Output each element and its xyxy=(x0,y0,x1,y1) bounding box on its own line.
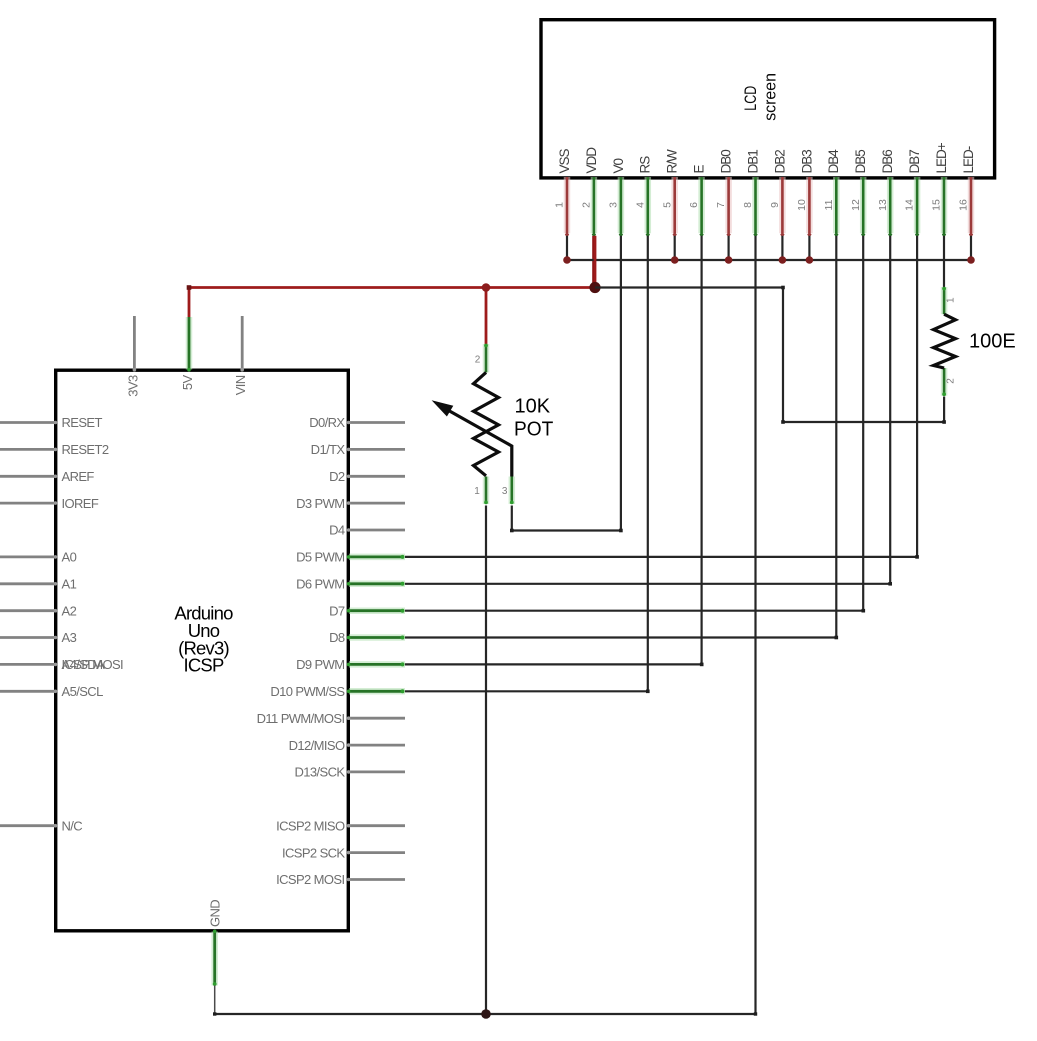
svg-text:V0: V0 xyxy=(611,158,626,173)
5V net: red wire from Arduino 5V to VDD xyxy=(189,286,595,289)
Arduino left pin A5/SCL xyxy=(0,684,103,699)
svg-text:D1/TX: D1/TX xyxy=(311,442,346,457)
svg-text:R/W: R/W xyxy=(665,149,680,174)
Arduino left pin RESET xyxy=(0,415,103,430)
LCD pin 12 DB5 (stub + pin label + number) xyxy=(850,150,868,238)
svg-text:2: 2 xyxy=(475,354,481,365)
Arduino top pin 5V xyxy=(180,317,195,390)
svg-text:6: 6 xyxy=(688,202,700,208)
svg-text:DB0: DB0 xyxy=(719,150,734,174)
LCD screen module (16-pin HD44780) outline xyxy=(541,20,995,178)
wire: LCD pin 1 VSS down to ground bus xyxy=(566,236,568,260)
LCD pin 8 DB1 (stub + pin label + number) xyxy=(742,150,760,238)
svg-text:VSS: VSS xyxy=(557,148,572,173)
svg-text:D0/RX: D0/RX xyxy=(309,415,345,430)
ground bus under LCD (pins 1,5,7,9,10,16) xyxy=(567,259,971,261)
wire: Arduino D6 to LCD DB6 xyxy=(405,583,890,585)
svg-text:A5/SCL: A5/SCL xyxy=(62,684,104,699)
bendpoint at (783,422) xyxy=(781,420,785,424)
wire: LCD pin 11 DB4 vertical down xyxy=(835,236,837,638)
svg-text:3V3: 3V3 xyxy=(125,375,140,397)
Arduino right pin D0/RX xyxy=(309,415,405,430)
wire: LCD pin 7 DB0 down to ground bus xyxy=(727,236,729,260)
svg-text:8: 8 xyxy=(742,202,754,208)
LCD pin 11 DB4 (stub + pin label + number) xyxy=(823,149,841,238)
Arduino right pin ICSP2 MOSI xyxy=(276,872,405,887)
svg-text:5V: 5V xyxy=(180,374,195,390)
bendpoint: bottom bus right end (DB1) xyxy=(754,1012,757,1015)
Arduino left pin A3 xyxy=(0,630,77,645)
Arduino left pin RESET2 xyxy=(0,442,109,457)
svg-text:POT: POT xyxy=(514,419,553,441)
wire: LCD pin 5 R/W down to ground bus xyxy=(674,236,676,260)
wire: potentiometer pin 1 down to bottom ground bus xyxy=(485,506,487,1015)
svg-text:2: 2 xyxy=(945,378,956,384)
svg-text:DB7: DB7 xyxy=(907,150,922,174)
svg-text:D10 PWM/SS: D10 PWM/SS xyxy=(270,684,345,699)
Arduino right pin D4 xyxy=(329,523,405,538)
svg-text:5: 5 xyxy=(661,202,673,208)
bendpoint at (944,422) xyxy=(942,420,946,424)
bendpoint at (890.2,583.8) xyxy=(888,582,892,586)
Arduino right pin D9 PWM xyxy=(296,657,405,672)
wire: Arduino D10 to LCD RS xyxy=(405,690,648,692)
bendpoint at (863.3,610.7) xyxy=(862,609,866,613)
svg-text:4: 4 xyxy=(634,202,646,208)
svg-text:VDD: VDD xyxy=(584,147,599,174)
svg-text:DB6: DB6 xyxy=(880,150,895,174)
Arduino right pin D1/TX xyxy=(311,442,405,457)
wire: LCD pin 12 DB5 vertical down xyxy=(862,236,864,611)
bendpoint: 5V corner above Arduino xyxy=(187,285,192,290)
svg-text:RESET2: RESET2 xyxy=(62,442,109,457)
Arduino right pin D2 xyxy=(329,469,405,484)
wire: LCD pin 4 RS vertical down xyxy=(647,236,649,692)
svg-text:D9 PWM: D9 PWM xyxy=(296,657,344,672)
bendpoint at (917.1,556.9) xyxy=(915,555,919,559)
svg-text:D7: D7 xyxy=(329,603,345,618)
Arduino left pin A4/SDA (label overlapped by ICSP MOSI) xyxy=(0,657,123,672)
svg-text:RESET: RESET xyxy=(62,415,103,430)
svg-text:D8: D8 xyxy=(329,630,345,645)
wire: LCD pin 6 E vertical down xyxy=(700,236,702,665)
svg-text:DB1: DB1 xyxy=(745,150,760,174)
svg-text:D13/SCK: D13/SCK xyxy=(295,765,346,780)
R2 value label 10K POT xyxy=(514,395,553,440)
junction: LED- on ground bus xyxy=(967,256,975,264)
Arduino right pin D13/SCK xyxy=(295,765,406,780)
wire: Arduino D5 to LCD DB7 xyxy=(405,556,917,558)
svg-text:ICSP2 SCK: ICSP2 SCK xyxy=(282,845,345,860)
svg-text:14: 14 xyxy=(904,199,916,211)
LCD pin 6 E (stub + pin label + number) xyxy=(688,165,706,238)
svg-text:2: 2 xyxy=(581,202,593,208)
Arduino top pin VIN xyxy=(233,316,248,395)
svg-text:15: 15 xyxy=(931,199,943,211)
LCD pin 10 DB3 (stub + pin label + number) xyxy=(796,150,814,238)
svg-text:DB2: DB2 xyxy=(772,150,787,174)
svg-text:screen: screen xyxy=(760,73,779,121)
svg-text:A2: A2 xyxy=(62,603,77,618)
svg-text:1: 1 xyxy=(945,297,956,303)
bendpoint at (836.3,637.5) xyxy=(835,636,839,640)
svg-text:3: 3 xyxy=(608,202,620,208)
resistor R1 100E (series with LCD backlight LED+) xyxy=(934,287,957,396)
junction: R/W on ground bus xyxy=(671,256,679,264)
wire: LCD pin 10 DB3 down to ground bus xyxy=(808,236,810,260)
svg-text:LED+: LED+ xyxy=(934,142,949,173)
wire: LCD pin 3 V0 vertical down xyxy=(620,236,622,531)
Arduino module label 'Arduino Uno (Rev3)' + overlapping 'ICSP' xyxy=(174,603,233,676)
svg-text:A0: A0 xyxy=(62,550,77,565)
svg-text:1: 1 xyxy=(474,486,480,497)
Arduino right pin D7 xyxy=(329,603,405,618)
Arduino right pin D8 xyxy=(329,630,405,645)
bendpoint: bottom bus left end xyxy=(213,1012,216,1015)
LCD pin 4 RS (stub + pin label + number) xyxy=(634,156,652,238)
svg-text:D3 PWM: D3 PWM xyxy=(296,496,344,511)
svg-text:D12/MISO: D12/MISO xyxy=(289,738,345,753)
svg-text:LCD: LCD xyxy=(741,86,760,111)
junction: VSS on ground bus xyxy=(563,256,571,264)
svg-text:E: E xyxy=(692,165,707,174)
svg-text:IOREF: IOREF xyxy=(62,496,99,511)
svg-text:12: 12 xyxy=(850,199,862,211)
svg-text:9: 9 xyxy=(769,202,781,208)
Arduino right pin D6 PWM xyxy=(296,577,405,592)
svg-text:DB4: DB4 xyxy=(826,149,841,174)
svg-text:D4: D4 xyxy=(329,523,345,538)
svg-text:A1: A1 xyxy=(62,577,77,592)
svg-text:13: 13 xyxy=(877,199,889,211)
Arduino left pin A1 xyxy=(0,577,77,592)
svg-text:D6 PWM: D6 PWM xyxy=(296,577,344,592)
Arduino right pin D10 PWM/SS xyxy=(270,684,405,699)
svg-text:GND: GND xyxy=(208,900,223,927)
junction: DB2 on ground bus xyxy=(779,256,787,264)
Arduino left pin N/C xyxy=(0,818,82,833)
wire: Arduino D7 to LCD DB5 xyxy=(405,610,863,612)
wire: LCD pin 14 DB7 vertical down xyxy=(916,236,918,558)
wire: LCD pin 8 DB1 vertical down xyxy=(754,236,756,1014)
svg-text:ICSP2 MISO: ICSP2 MISO xyxy=(276,818,345,833)
Arduino Uno (Rev3) module outline xyxy=(56,370,349,931)
svg-text:10: 10 xyxy=(796,199,808,211)
Arduino left pin A2 xyxy=(0,603,77,618)
bendpoint at (647.8,691.3) xyxy=(646,690,650,694)
junction: potentiometer pin1 on bottom ground bus xyxy=(481,1009,491,1019)
svg-text:11: 11 xyxy=(823,199,835,210)
svg-text:100E: 100E xyxy=(969,330,1016,352)
bendpoint at (620.9,530.5) xyxy=(619,529,623,533)
Arduino top pin 3V3 xyxy=(125,316,140,397)
junction: 5V at VDD drop xyxy=(589,282,600,293)
svg-text:VIN: VIN xyxy=(233,375,248,395)
bendpoint at (511.8,530.5) xyxy=(510,529,514,533)
svg-text:ICSP MOSI: ICSP MOSI xyxy=(62,657,124,672)
wire: potentiometer pin 3 (wiper) to LCD V0 xyxy=(512,506,621,531)
Arduino left pin AREF xyxy=(0,469,94,484)
LCD pin 14 DB7 (stub + pin label + number) xyxy=(904,150,922,238)
wire: LCD pin 2 VDD down to 5V node (red) xyxy=(592,236,595,288)
wire: LCD pin 9 DB2 down to ground bus xyxy=(781,236,783,260)
svg-text:AREF: AREF xyxy=(62,469,95,484)
LCD module label 'LCD screen' xyxy=(741,73,780,121)
wire: 5V node across to LED+ resistor branch xyxy=(595,288,944,423)
svg-text:DB5: DB5 xyxy=(853,150,868,174)
wire: LCD pin 15 LED+ vertical down xyxy=(943,236,945,287)
bendpoint at (701.7,664.4) xyxy=(700,663,704,667)
wire: LCD pin 13 DB6 vertical down xyxy=(889,236,891,585)
LCD pin 5 R/W (stub + pin label + number) xyxy=(661,149,679,237)
svg-text:N/C: N/C xyxy=(62,818,83,833)
svg-text:3: 3 xyxy=(502,486,508,497)
Arduino right pin D12/MISO xyxy=(289,738,405,753)
svg-text:1: 1 xyxy=(554,202,566,208)
Arduino bottom pin GND xyxy=(208,900,223,986)
LCD pin 7 DB0 (stub + pin label + number) xyxy=(715,150,733,238)
wire: LCD pin 16 LED- down to ground bus xyxy=(970,236,972,260)
svg-text:10K: 10K xyxy=(515,395,551,417)
svg-text:D5 PWM: D5 PWM xyxy=(296,550,344,565)
svg-text:7: 7 xyxy=(715,202,727,208)
Arduino right pin D11 PWM/MOSI xyxy=(257,711,405,726)
junction: DB0 on ground bus xyxy=(725,256,733,264)
LCD pin 9 DB2 (stub + pin label + number) xyxy=(769,150,787,238)
LCD pin 3 V0 (stub + pin label + number) xyxy=(608,158,626,237)
LCD pin 15 LED+ (stub + pin label + number) xyxy=(931,142,949,237)
Arduino left pin IOREF xyxy=(0,496,99,511)
Arduino right pin D3 PWM xyxy=(296,496,405,511)
LCD pin 16 LED- (stub + pin label + number) xyxy=(958,146,976,237)
wire: Arduino D9 to LCD E xyxy=(405,663,702,665)
Arduino right pin ICSP2 MISO xyxy=(276,818,405,833)
svg-text:ICSP: ICSP xyxy=(184,655,224,676)
svg-text:RS: RS xyxy=(638,156,653,174)
LCD pin 1 VSS (stub + pin label + number) xyxy=(554,148,572,237)
junction: DB3 on ground bus xyxy=(806,256,814,264)
svg-text:D11 PWM/MOSI: D11 PWM/MOSI xyxy=(257,711,345,726)
junction: 5V to potentiometer pin 2 xyxy=(482,283,491,292)
bottom ground bus xyxy=(215,1013,756,1015)
bendpoint at (783,287.5) xyxy=(781,286,785,290)
svg-text:D2: D2 xyxy=(329,469,345,484)
LCD pin 2 VDD (stub + pin label + number) xyxy=(581,147,599,238)
wire: Arduino GND down to bottom ground bus xyxy=(214,986,216,1015)
potentiometer R2 10K POT xyxy=(432,344,514,505)
Arduino left pin A0 xyxy=(0,550,77,565)
LCD pin 13 DB6 (stub + pin label + number) xyxy=(877,150,895,238)
Arduino right pin ICSP2 SCK xyxy=(282,845,405,860)
wire: Arduino D8 to LCD DB4 xyxy=(405,636,836,638)
svg-text:ICSP2 MOSI: ICSP2 MOSI xyxy=(276,872,344,887)
svg-text:A3: A3 xyxy=(62,630,77,645)
svg-text:LED-: LED- xyxy=(961,146,976,173)
svg-text:DB3: DB3 xyxy=(799,150,814,174)
Arduino right pin D5 PWM xyxy=(296,550,405,565)
svg-text:16: 16 xyxy=(958,199,970,211)
